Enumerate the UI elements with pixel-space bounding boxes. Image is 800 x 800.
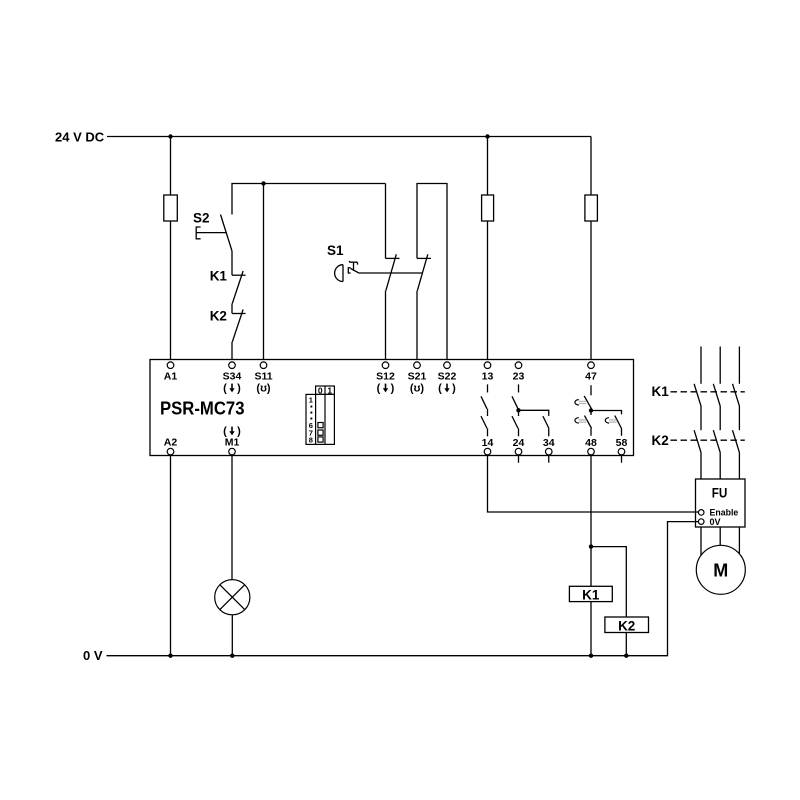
forced-guidance arrow 48 <box>575 418 586 423</box>
svg-text:0V: 0V <box>710 517 721 527</box>
contact 47-48 <box>584 385 591 436</box>
contact K2 NC <box>232 310 246 342</box>
wire S1 mechanical link <box>351 269 423 274</box>
svg-text:14: 14 <box>482 437 494 449</box>
switch S1 mushroom actuator <box>335 261 358 282</box>
svg-text:M1: M1 <box>225 437 240 449</box>
svg-text:K1: K1 <box>582 587 600 602</box>
switch S1 contact channel 1 <box>386 184 400 291</box>
node junction 23 branch <box>516 408 520 412</box>
pin Enable <box>698 510 704 516</box>
wire 14 to Enable <box>488 455 699 512</box>
svg-text:1: 1 <box>309 396 313 405</box>
wire K2 dashed actuation line <box>671 439 745 441</box>
terminal S34 <box>229 362 236 369</box>
svg-text:): ) <box>452 383 456 395</box>
node junction rail K1 <box>589 654 593 658</box>
wire S2 to K1 <box>231 251 233 275</box>
wire 13 branch <box>487 137 489 362</box>
wire S1 ch2 to S21 <box>416 291 418 362</box>
wire M1 down <box>231 455 233 580</box>
svg-text:FU: FU <box>712 486 728 501</box>
contact 58 <box>615 416 622 436</box>
motor M <box>696 527 745 594</box>
forced-guidance arrow 58 <box>605 418 616 423</box>
coil K2 <box>605 617 649 633</box>
contactor main contacts phase L3 <box>733 347 740 480</box>
wire K1 to K2 <box>231 304 233 314</box>
forced-guidance arrow 47 <box>575 400 586 405</box>
svg-text:(: ( <box>223 383 227 395</box>
wire K1 dashed actuation line <box>671 391 745 393</box>
fuse F3 <box>585 195 598 221</box>
stub below 58 <box>621 455 623 463</box>
terminal S22 <box>444 362 451 369</box>
svg-text:S1: S1 <box>327 243 344 258</box>
pin 0V <box>698 519 704 525</box>
terminal 24 <box>515 448 522 455</box>
wire A2 down <box>170 455 172 656</box>
terminal 13 <box>484 362 491 369</box>
svg-text:0: 0 <box>318 386 323 396</box>
contact 13-14 <box>481 384 488 436</box>
terminal M1 <box>229 448 236 455</box>
terminal 48 <box>588 448 595 455</box>
wire S11 vertical <box>263 184 265 362</box>
svg-text:47: 47 <box>585 371 597 383</box>
svg-text:48: 48 <box>585 437 597 449</box>
contact K1 NC <box>232 271 246 304</box>
switch S1 contact channel 2 <box>417 254 431 290</box>
switch S2 NO contact <box>196 215 232 252</box>
svg-text:M: M <box>713 561 728 581</box>
svg-text:S12: S12 <box>376 371 395 383</box>
svg-text:(ʊ): (ʊ) <box>256 383 270 395</box>
lamp H1 <box>215 580 250 615</box>
svg-text:13: 13 <box>482 371 494 383</box>
contactor main contacts phase L2 <box>713 347 720 480</box>
stub below 24 <box>518 455 520 463</box>
contact 23-24 <box>512 384 519 436</box>
svg-text:): ) <box>237 383 241 395</box>
terminal S21 <box>414 362 421 369</box>
terminal 34 <box>545 448 552 455</box>
wire S1 ch1 to S12 <box>385 291 387 362</box>
wire branch to K2 coil <box>591 547 626 656</box>
svg-text:S22: S22 <box>438 371 457 383</box>
svg-text:K1: K1 <box>210 269 228 284</box>
svg-text:A2: A2 <box>164 437 178 449</box>
node junction K2 branch <box>589 544 593 548</box>
wire 0V bottom rail <box>107 522 699 656</box>
svg-text:58: 58 <box>616 437 628 449</box>
wire S11 second rail <box>232 184 386 215</box>
svg-text:(: ( <box>438 383 442 395</box>
terminal S11 <box>260 362 267 369</box>
wire lamp to 0V rail <box>231 615 233 656</box>
fuse F2 <box>482 195 494 221</box>
frequency converter FU <box>696 479 746 527</box>
svg-text:PSR-MC73: PSR-MC73 <box>160 399 245 419</box>
svg-text:0 V: 0 V <box>83 648 103 663</box>
contact 34 <box>543 416 549 436</box>
stub below 34 <box>548 455 550 463</box>
svg-text:S21: S21 <box>408 371 427 383</box>
svg-text:S11: S11 <box>254 371 272 383</box>
terminal A2 <box>167 448 174 455</box>
svg-text:1: 1 <box>327 386 332 396</box>
contactor main contacts phase L1 <box>694 347 701 480</box>
svg-text:S34: S34 <box>223 371 242 383</box>
svg-text:): ) <box>391 383 395 395</box>
wire 47 branch <box>590 137 592 362</box>
node junction rail K2 <box>624 654 628 658</box>
svg-text:8: 8 <box>309 436 313 445</box>
svg-text:K2: K2 <box>618 618 635 633</box>
node junction 47 branch <box>589 408 593 412</box>
node junction top rail / A1 <box>168 134 172 138</box>
terminal S12 <box>382 362 389 369</box>
wire 24V top rail <box>107 136 591 138</box>
svg-text:34: 34 <box>543 437 555 449</box>
wire K2 to S34 <box>231 342 233 362</box>
node junction rail lamp <box>230 654 234 658</box>
svg-text:K2: K2 <box>652 433 669 448</box>
svg-text:K1: K1 <box>652 384 670 399</box>
svg-text:24: 24 <box>513 437 525 449</box>
DIP switch S3 <box>306 386 334 445</box>
svg-text:A1: A1 <box>164 371 178 383</box>
wire branch to 58 <box>591 411 622 415</box>
svg-text:K2: K2 <box>210 309 227 324</box>
terminal 58 <box>618 448 625 455</box>
wire S21 bracket <box>417 184 447 362</box>
node junction S11 rail <box>261 181 265 185</box>
wire branch to 34 <box>519 410 549 416</box>
terminal A1 <box>167 362 174 369</box>
svg-text:23: 23 <box>513 371 525 383</box>
fuse F1 <box>164 195 178 221</box>
relay U1 PSR-MC73 body <box>150 360 634 456</box>
terminal 14 <box>484 448 491 455</box>
svg-text:S2: S2 <box>193 211 210 226</box>
terminal 23 <box>515 362 522 369</box>
node junction top rail / 13 <box>485 134 489 138</box>
wire 48 to coils <box>590 455 592 656</box>
terminal 47 <box>588 362 595 369</box>
coil K1 <box>569 586 612 602</box>
wire A1 branch <box>170 137 172 362</box>
svg-text:(ʊ): (ʊ) <box>410 383 424 395</box>
node junction rail A2 <box>168 654 172 658</box>
svg-text:24 V DC: 24 V DC <box>55 130 105 145</box>
svg-text:(: ( <box>377 383 381 395</box>
